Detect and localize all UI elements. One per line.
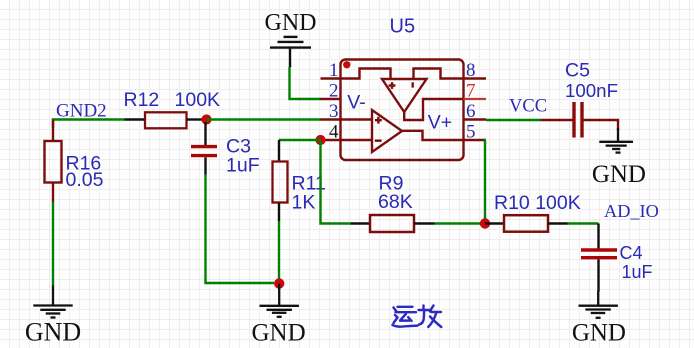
pin 4 — [321, 139, 341, 141]
svg-text:GND: GND — [252, 320, 306, 347]
U5 body — [341, 60, 464, 161]
svg-text:0.05: 0.05 — [66, 169, 104, 191]
svg-text:GND: GND — [592, 161, 646, 188]
char 放 strokes — [422, 306, 424, 310]
svg-text:5: 5 — [466, 122, 476, 143]
title text 运放 (drawn strokes) — [393, 306, 442, 328]
C4 bottom pin — [597, 259, 599, 291]
svg-text:100K: 100K — [175, 89, 221, 111]
R16 pins — [52, 120, 54, 203]
amp B output to pin5 — [402, 131, 463, 140]
resistor R9 — [351, 173, 435, 233]
svg-text:6: 6 — [466, 101, 476, 122]
plus amp B — [375, 117, 382, 124]
ground GND (top right) — [592, 128, 646, 188]
C5 right pin — [584, 120, 619, 130]
svg-text:R12: R12 — [124, 89, 160, 111]
pin 1 — [321, 77, 341, 79]
pin 6 — [464, 118, 487, 120]
internal wire pin3 to amp B plus — [341, 118, 373, 120]
C3 bottom pin — [204, 157, 206, 174]
svg-text:1K: 1K — [292, 192, 316, 214]
C4 plate top — [581, 248, 617, 251]
C4 top pin — [597, 224, 599, 249]
pin1 dot marker — [343, 61, 350, 68]
R11 body — [273, 162, 288, 203]
wire R11 to bottom junction — [278, 221, 280, 283]
junction node at R9/R10 — [480, 218, 490, 228]
internal wire pin4 to amp B minus — [341, 139, 373, 141]
C3 plate top — [191, 145, 217, 148]
ground pin line — [278, 284, 280, 306]
svg-text:V-: V- — [347, 91, 365, 113]
wire R16 to ground — [52, 202, 54, 286]
svg-text:GND: GND — [265, 10, 317, 36]
R11 bottom pin — [278, 203, 280, 222]
resistor R12 — [124, 89, 221, 128]
ground pin line — [597, 291, 599, 305]
C3 top pin — [204, 122, 206, 145]
svg-text:3: 3 — [329, 101, 339, 122]
ground bars — [284, 36, 298, 38]
R16 body — [45, 141, 62, 183]
svg-text:4: 4 — [329, 122, 339, 143]
op-amp A triangle — [382, 79, 427, 112]
R10 left pin — [485, 222, 504, 224]
capacitor C3 — [191, 122, 260, 177]
svg-text:8: 8 — [466, 60, 476, 81]
svg-text:7: 7 — [466, 81, 476, 102]
R11 top pin — [278, 140, 280, 162]
R9 left pin — [351, 222, 371, 224]
svg-text:100nF: 100nF — [565, 80, 618, 101]
svg-text:68K: 68K — [378, 191, 413, 213]
svg-text:U5: U5 — [390, 16, 416, 38]
svg-text:1uF: 1uF — [226, 155, 260, 177]
svg-text:1: 1 — [329, 60, 339, 81]
power port GND (top) — [265, 10, 317, 68]
capacitor C4 — [581, 224, 653, 292]
pin 3 — [321, 118, 341, 120]
wire pin4 net down to R9 — [321, 140, 351, 224]
junction node bottom center — [274, 278, 284, 288]
component U5 opamp — [321, 16, 487, 161]
svg-text:VCC: VCC — [509, 97, 547, 117]
op-amp B triangle — [372, 110, 402, 152]
pin 2 — [321, 98, 341, 100]
pin 5 — [464, 139, 487, 141]
svg-text:GND: GND — [572, 320, 626, 347]
wire GND to U5 pin2 — [290, 67, 322, 99]
R9 body — [370, 215, 414, 232]
svg-text:1uF: 1uF — [622, 262, 653, 282]
amp A output to pin7 — [404, 99, 463, 120]
C5 left pin — [541, 119, 573, 121]
R10 body — [504, 215, 548, 232]
wire C3 to bottom junction — [206, 175, 275, 284]
C4 plate bottom — [581, 256, 617, 259]
ground pin line — [617, 128, 619, 141]
ground pin line — [52, 286, 54, 306]
ground GND (bottom right) — [572, 291, 626, 347]
minus amp A — [412, 82, 414, 87]
resistor R16 — [45, 120, 104, 203]
R12 left pin — [125, 118, 146, 120]
wire R9 to junction — [435, 222, 486, 224]
R10 right pin — [548, 222, 568, 224]
wire pin6 to VCC / C5 — [486, 119, 541, 121]
wire GND2 net — [53, 120, 125, 129]
wire R10 to AD_IO corner — [568, 222, 599, 224]
svg-text:V+: V+ — [428, 111, 452, 133]
plus amp A — [389, 82, 396, 89]
C5 plate left — [572, 102, 575, 138]
pin 7 (red) — [464, 98, 487, 100]
pin 8 — [464, 77, 487, 79]
minus amp B — [375, 139, 382, 141]
R9 right pin — [414, 222, 435, 224]
R12 right pin — [187, 118, 203, 120]
junction node at pin4 — [315, 135, 325, 145]
resistor R10 — [485, 192, 581, 232]
C3 plate bottom — [191, 154, 217, 157]
junction node at R12/C3 — [201, 114, 211, 124]
wire junction to U5 pin3 — [207, 118, 322, 120]
internal wire pin8 to amp1 — [414, 69, 464, 79]
ground GND (bottom left) — [25, 286, 81, 347]
internal wire pin1 to amp1 — [341, 69, 391, 79]
wire pin4 to R11 top — [279, 139, 321, 141]
char 运 strokes — [394, 308, 397, 312]
R12 body — [145, 112, 187, 128]
svg-text:2: 2 — [329, 81, 339, 102]
ground GND (bottom center) — [252, 284, 306, 347]
svg-text:AD_IO: AD_IO — [604, 201, 659, 221]
capacitor C5 — [541, 60, 619, 138]
wire junction up to pin5 — [485, 140, 486, 224]
resistor R11 — [273, 140, 326, 221]
svg-text:C5: C5 — [565, 60, 590, 82]
svg-text:R10 100K: R10 100K — [494, 192, 581, 214]
svg-text:C4: C4 — [620, 243, 643, 263]
svg-text:GND: GND — [25, 318, 81, 347]
C5 plate right — [580, 102, 583, 138]
